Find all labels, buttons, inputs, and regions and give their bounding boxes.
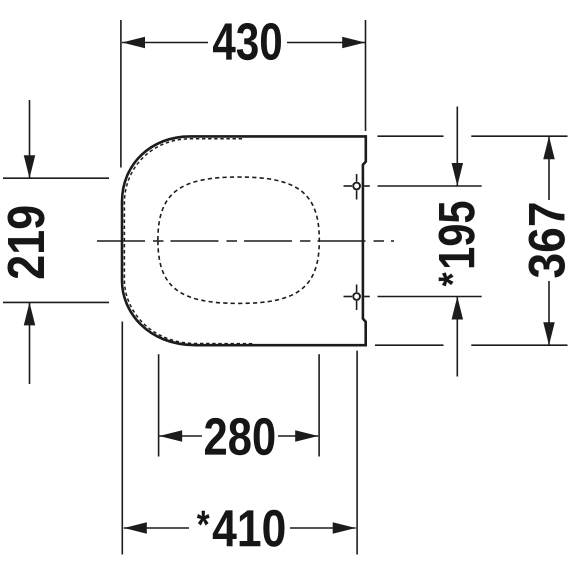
dimension 430 arrow right bbox=[342, 37, 365, 49]
dimension 410 arrow right bbox=[333, 522, 356, 534]
dimension 219 tick bottom bbox=[3, 301, 109, 303]
hinge hole top bbox=[353, 183, 360, 190]
dimension 219 arrow up bbox=[24, 302, 36, 384]
dimension 410 arrow left bbox=[124, 522, 147, 534]
dimension 367 extension line bottom bbox=[375, 344, 568, 346]
dimension 195 text bbox=[438, 202, 474, 287]
dimension 280 extension line right bbox=[318, 354, 320, 456]
hinge hole bottom bbox=[353, 293, 360, 300]
dimension 195 extension line lower bbox=[378, 296, 482, 298]
dimension 195 arrow down bbox=[452, 107, 464, 187]
seat outer outline bbox=[122, 136, 366, 345]
dimension 280 extension line left bbox=[158, 354, 160, 456]
dimension 430 extension line left bbox=[120, 20, 122, 168]
hinge bottom crosshair bbox=[344, 285, 370, 311]
dimension 367 extension line top bbox=[377, 135, 567, 137]
dimension 280 text bbox=[205, 418, 274, 455]
dimension 195 extension line upper bbox=[378, 185, 482, 187]
dimension 219 tick top bbox=[3, 177, 109, 179]
dimension 410 line bbox=[124, 527, 356, 529]
dimension 219 text bbox=[8, 207, 45, 279]
dimension 280 line bbox=[159, 435, 318, 437]
dimension 430 text bbox=[213, 23, 281, 60]
dimension 410 extension line left bbox=[121, 322, 123, 555]
dimension 367 text bbox=[529, 203, 565, 277]
dimension 410 extension line right bbox=[356, 351, 358, 555]
dimension 219 arrow down bbox=[24, 100, 36, 178]
dimension 430 line bbox=[122, 42, 365, 44]
dimension 195 arrow up bbox=[452, 297, 464, 377]
dimension 280 arrow right bbox=[295, 430, 318, 442]
dimension 280 arrow left bbox=[159, 430, 182, 442]
seat opening (dashed superellipse) bbox=[158, 177, 319, 303]
hinge top crosshair bbox=[344, 174, 370, 200]
seat inner hidden edge (dashed) bbox=[124, 139, 253, 344]
dimension 430 arrow left bbox=[122, 37, 145, 49]
dimension 430 extension line right bbox=[365, 20, 367, 131]
horizontal centerline (dash-dot) bbox=[97, 240, 394, 242]
dimension 410 text bbox=[197, 510, 285, 547]
dimension 367 line with arrows bbox=[543, 136, 555, 345]
